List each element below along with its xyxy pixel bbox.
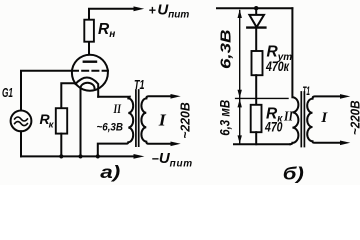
wire cathode to winding II xyxy=(98,96,128,98)
svg-text:~220В: ~220В xyxy=(347,101,360,136)
resistor R_k a xyxy=(56,108,67,133)
svg-text:6,3В: 6,3В xyxy=(217,29,234,69)
svg-text:~6,3В: ~6,3В xyxy=(97,122,124,134)
winding I a lead top xyxy=(146,96,171,98)
anode plate xyxy=(84,61,96,63)
svg-text:T1: T1 xyxy=(134,78,145,92)
node dot heater rail xyxy=(78,154,82,158)
resistor R_k b xyxy=(251,105,262,132)
svg-text:6,3 мВ: 6,3 мВ xyxy=(216,100,232,136)
arrow out bottom a xyxy=(171,142,181,147)
tube V1 envelope xyxy=(72,55,108,91)
transformer T1 b winding II xyxy=(290,8,298,144)
svg-text:G1: G1 xyxy=(2,86,13,100)
wire R_ut to R_k b xyxy=(255,75,257,105)
svg-text:I: I xyxy=(320,110,328,126)
svg-text:I: I xyxy=(158,111,167,130)
top wire b xyxy=(217,7,292,9)
winding I a xyxy=(141,98,171,143)
svg-text:470к: 470к xyxy=(265,59,290,74)
svg-text:II: II xyxy=(283,108,293,123)
node dot winding rail xyxy=(96,154,100,158)
svg-text:II: II xyxy=(113,102,122,116)
transformer T1 a winding II xyxy=(98,97,133,157)
G1 wave xyxy=(15,117,28,121)
core T1 a xyxy=(136,90,139,146)
diode VD xyxy=(255,8,257,15)
arrow out bottom b xyxy=(340,141,350,146)
svg-text:T1: T1 xyxy=(303,84,311,98)
arrow -Upit xyxy=(134,154,145,159)
winding I b lead top xyxy=(313,96,341,98)
node dot R_k rail xyxy=(59,154,63,158)
dimension line 6,3V xyxy=(239,11,241,98)
bottom rail a xyxy=(21,155,135,157)
wire R_k to rail xyxy=(60,134,62,157)
source G1 xyxy=(11,111,32,132)
wire anode top xyxy=(89,9,135,20)
svg-text:470: 470 xyxy=(264,120,283,135)
cathode xyxy=(61,78,98,109)
resistor R_n xyxy=(84,20,94,42)
arrow out top b xyxy=(340,94,350,99)
dimension line 6,3mV xyxy=(239,99,241,143)
arrow +Upit xyxy=(134,6,145,11)
wire grid to G1 xyxy=(21,71,72,111)
arrow out top a xyxy=(171,94,181,99)
wire R_k to rail b xyxy=(255,132,257,144)
wire G1 to rail xyxy=(20,131,22,156)
winding I b xyxy=(307,99,340,143)
node dot diode top xyxy=(254,6,258,10)
svg-text:~220В: ~220В xyxy=(178,102,193,139)
wire R_n to anode plate xyxy=(88,42,90,62)
resistor R_ut xyxy=(252,51,263,75)
core T1 b xyxy=(301,92,304,147)
bottom rail b xyxy=(234,143,290,145)
grid (dashed) xyxy=(72,70,108,72)
node line b xyxy=(236,97,288,99)
heater xyxy=(81,83,95,157)
svg-text:б): б) xyxy=(283,163,304,183)
svg-text:а): а) xyxy=(100,162,120,182)
